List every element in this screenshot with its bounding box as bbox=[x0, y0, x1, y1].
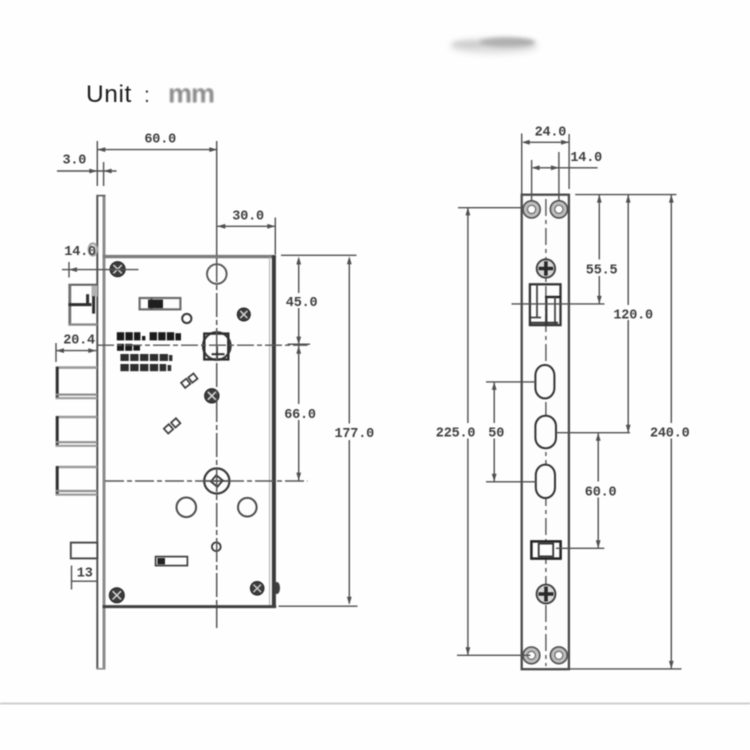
lower circle right bbox=[238, 498, 257, 517]
dimension 30.0 bbox=[217, 218, 275, 255]
top screw hole left bbox=[523, 201, 540, 218]
lock body outline bbox=[103, 255, 277, 608]
dimension 24.0 (plate width) bbox=[522, 134, 569, 208]
bottom auxiliary bolt bbox=[71, 543, 98, 559]
night latch square hole bbox=[531, 541, 560, 558]
dimension 177.0 bbox=[279, 256, 358, 606]
bottom screw hole right bbox=[550, 647, 567, 664]
svg-text:14.0: 14.0 bbox=[570, 151, 602, 166]
svg-text:13: 13 bbox=[77, 567, 93, 582]
svg-text:mm: mm bbox=[168, 79, 214, 109]
lower circle left bbox=[177, 498, 197, 518]
small circle under slot bbox=[182, 314, 191, 323]
body screw 5 (bottom right) bbox=[250, 582, 264, 596]
dimension 13 bbox=[72, 566, 98, 590]
shared top extension line (45.0 / 177.0) bbox=[281, 254, 357, 256]
faceplate outline bbox=[522, 195, 569, 670]
dimension 20.4 bbox=[56, 343, 96, 362]
svg-text:14.0: 14.0 bbox=[64, 245, 96, 260]
top circle (cylinder hole) bbox=[207, 264, 227, 284]
stamped text block (4 lines) bbox=[117, 332, 181, 371]
top reference extension line (right) bbox=[575, 194, 676, 196]
small pin left of faceplate top bbox=[89, 244, 97, 256]
dimension 120.0 bbox=[556, 195, 631, 433]
bolt hole 3 (obround) bbox=[536, 465, 555, 498]
spindle hub (circle + square) bbox=[203, 332, 231, 360]
dimension 60.0 (right view) bbox=[556, 433, 604, 549]
body screw 4 (bottom left) bbox=[109, 588, 124, 603]
svg-text:30.0: 30.0 bbox=[232, 210, 264, 225]
svg-text::: : bbox=[144, 84, 150, 107]
svg-text:20.4: 20.4 bbox=[63, 334, 95, 349]
svg-text:24.0: 24.0 bbox=[535, 125, 567, 140]
dimension 14.0 (left latch) bbox=[62, 262, 139, 278]
latch bolt assembly (top left protrusion) bbox=[68, 284, 97, 326]
dimension 55.5 bbox=[597, 195, 602, 304]
phillips screw upper bbox=[537, 259, 555, 277]
latch centerline extension bbox=[512, 303, 605, 305]
tilted rivet pair A bbox=[181, 373, 197, 387]
top screw hole right bbox=[550, 201, 567, 218]
faceplate centerline (dash-dot) bbox=[545, 199, 547, 666]
faceplate edge view (left vertical double line) bbox=[96, 195, 105, 670]
dimension 14.0 (screw centers) bbox=[532, 152, 598, 201]
photo smudge top bbox=[450, 38, 538, 54]
body screw 2 (right of hub) bbox=[237, 308, 250, 321]
body screw 3 (center) bbox=[205, 389, 219, 403]
svg-text:177.0: 177.0 bbox=[335, 427, 375, 442]
right edge bump bbox=[274, 582, 280, 594]
svg-text:3.0: 3.0 bbox=[63, 154, 87, 169]
svg-text:240.0: 240.0 bbox=[650, 427, 690, 442]
tilted rivet pair B bbox=[164, 418, 181, 433]
bottom page separator line bbox=[0, 703, 750, 705]
dimension 66.0 bbox=[296, 346, 301, 481]
bolt hole 1 (obround) bbox=[535, 365, 554, 398]
bottom screw hole left bbox=[523, 647, 540, 664]
slot with slider (lower) bbox=[156, 557, 188, 566]
svg-text:225.0: 225.0 bbox=[436, 427, 476, 442]
small circle low center bbox=[212, 542, 221, 551]
svg-text:66.0: 66.0 bbox=[284, 408, 316, 423]
vertical centerline of body bbox=[216, 141, 218, 628]
lower hub (circle with cam) bbox=[203, 468, 231, 493]
horizontal centerline through spindle hub bbox=[97, 344, 308, 346]
phillips screw lower bbox=[537, 585, 556, 604]
dimension 225.0 bbox=[457, 207, 531, 655]
horizontal centerline through lower hub bbox=[105, 480, 308, 482]
latch bolt front view bbox=[530, 284, 561, 325]
dimension 45.0 bbox=[288, 257, 310, 405]
dimension 50 (bolt hole spacing) bbox=[486, 382, 537, 482]
svg-text:60.0: 60.0 bbox=[144, 132, 176, 147]
dimension 60.0 (left view top) bbox=[97, 141, 217, 186]
bolt hole 2 (obround) bbox=[535, 416, 556, 448]
svg-text:120.0: 120.0 bbox=[613, 308, 653, 323]
title: Unit : mm bbox=[86, 79, 214, 109]
deadbolt 1 bbox=[56, 367, 97, 399]
svg-text:55.5: 55.5 bbox=[586, 264, 618, 279]
svg-text:50: 50 bbox=[488, 427, 504, 442]
deadbolt 3 bbox=[56, 466, 97, 495]
dimension 240.0 bbox=[566, 195, 682, 669]
svg-text:45.0: 45.0 bbox=[286, 296, 318, 311]
dimension 3.0 (faceplate thickness) bbox=[57, 162, 117, 186]
svg-text:60.0: 60.0 bbox=[585, 486, 617, 501]
body screw 1 (top left) bbox=[110, 262, 125, 277]
deadbolt 2 bbox=[56, 416, 97, 446]
svg-text:Unit: Unit bbox=[86, 81, 132, 108]
slot with slider (upper) bbox=[140, 298, 181, 309]
